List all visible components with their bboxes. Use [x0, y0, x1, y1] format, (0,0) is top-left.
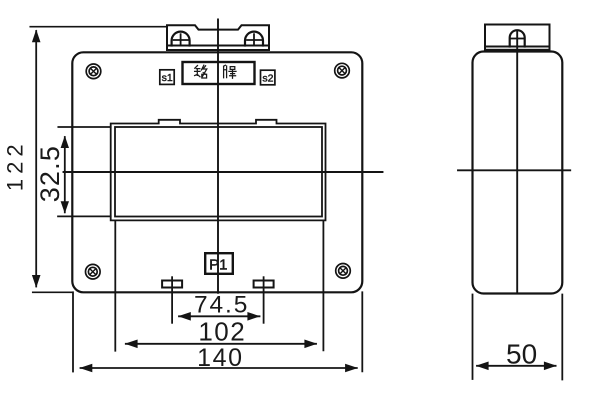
- horizontal centerline front view: [64, 171, 383, 173]
- dim 140 left extension line: [72, 292, 74, 371]
- svg-text:P1: P1: [209, 256, 227, 273]
- P1 box: [205, 253, 233, 274]
- side view cap plate line: [485, 46, 550, 48]
- dim 140 right extension line: [361, 292, 363, 371]
- dim 102 left extension line: [114, 221, 116, 351]
- corner screw top-right: [335, 63, 350, 78]
- side view body outline: [473, 52, 563, 294]
- nameplate char pai: [224, 65, 236, 78]
- dim 50 left extension line: [472, 295, 474, 380]
- corner screw top-left: [86, 64, 101, 79]
- dim 74.5 arrow right: [247, 312, 260, 321]
- dim 140 arrow left: [80, 364, 93, 373]
- side view dome screw: [510, 30, 525, 46]
- dim 50 right extension line: [561, 295, 563, 380]
- nameplate box: [183, 62, 255, 84]
- dim 32.5 bottom extension line: [58, 215, 111, 217]
- dim 102 line: [126, 343, 316, 345]
- dim 122 arrow down: [32, 275, 41, 288]
- nameplate char ming: [195, 65, 207, 78]
- svg-text:122: 122: [3, 139, 28, 191]
- svg-text:140: 140: [197, 344, 244, 372]
- dim 74.5 arrow left: [178, 312, 191, 321]
- dim 74.5 line: [179, 315, 260, 317]
- dim 50 line: [477, 365, 556, 367]
- svg-text:74.5: 74.5: [194, 292, 249, 319]
- dim 32.5 top extension line: [58, 126, 110, 128]
- svg-text:102: 102: [198, 317, 246, 347]
- dim 140 line: [81, 367, 357, 369]
- dim 32.5 arrow down: [61, 201, 69, 213]
- side view horizontal centerline: [458, 169, 570, 171]
- dim 32.5 line: [64, 137, 66, 212]
- clip right (bottom): [254, 281, 274, 288]
- dim 122 line: [35, 31, 37, 287]
- svg-text:s1: s1: [162, 72, 173, 84]
- side view vertical centerline: [516, 32, 518, 294]
- dim 122 bottom extension line: [33, 291, 73, 293]
- corner screw bottom-left: [86, 264, 101, 279]
- dim 122 top extension line: [30, 26, 167, 28]
- clip left centerline / 74.5 extension left: [171, 277, 173, 323]
- corner screw bottom-right: [336, 264, 351, 279]
- clip right centerline / 74.5 extension right: [263, 277, 265, 323]
- window opening inner rectangle: [115, 127, 322, 217]
- vertical centerline front view: [217, 19, 219, 292]
- s2 terminal box: [261, 70, 275, 85]
- dim 50 arrow right: [544, 362, 557, 371]
- dim 32.5 arrow up: [61, 136, 69, 148]
- s1 terminal box: [160, 70, 174, 85]
- mounting bracket (front view): [167, 25, 269, 50]
- svg-text:s2: s2: [262, 72, 273, 84]
- dim 102 arrow right: [304, 340, 317, 349]
- dim 122 arrow up: [32, 30, 41, 43]
- dim 102 right extension line: [322, 221, 324, 350]
- dome screw left (front bracket): [172, 32, 190, 46]
- side view cap: [485, 25, 550, 50]
- dim 50 arrow left: [476, 362, 489, 371]
- svg-text:32.5: 32.5: [35, 145, 65, 202]
- window opening double rectangle outer with tabs: [111, 120, 326, 221]
- dim 102 arrow left: [125, 340, 138, 349]
- front view body outline: [72, 52, 362, 292]
- bracket base plate line: [167, 45, 269, 47]
- svg-text:50: 50: [506, 339, 537, 370]
- clip left (bottom): [162, 281, 182, 288]
- dim 140 arrow right: [345, 364, 358, 373]
- dome screw right (front bracket): [245, 32, 263, 46]
